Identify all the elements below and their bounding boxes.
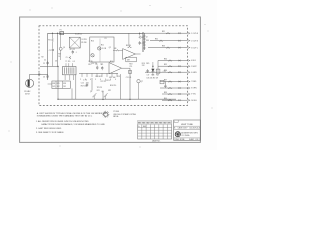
svg-text:5 WHT: 5 WHT [191, 66, 197, 68]
svg-text:C7 35: C7 35 [88, 61, 92, 63]
wire box divider [99, 39, 101, 63]
component box rows78 [160, 80, 164, 84]
svg-text:9: 9 [115, 79, 116, 81]
fuse F1 [60, 32, 64, 35]
svg-text:T1 115: T1 115 [65, 61, 70, 63]
component C5 [69, 56, 71, 59]
wire bottom bus [58, 98, 176, 100]
svg-text:REV: REV [155, 123, 158, 125]
scan speckles [52, 8, 53, 9]
svg-text:Q7: Q7 [141, 81, 143, 83]
svg-text:REV A: REV A [113, 115, 119, 118]
svg-text:R2: R2 [42, 57, 44, 59]
capacitor chain C20 [139, 42, 141, 44]
svg-text:K1: K1 [105, 38, 107, 40]
svg-text:R12: R12 [88, 64, 91, 66]
svg-text:R33: R33 [162, 46, 165, 48]
svg-text:3 OUT C: 3 OUT C [191, 47, 199, 49]
box under U1 [126, 57, 137, 62]
svg-text:R16 220: R16 220 [110, 85, 116, 87]
wire left edge [47, 33, 49, 80]
LED CR5 [151, 69, 154, 72]
svg-text:C11 .01: C11 .01 [126, 77, 132, 79]
svg-text:SC4R 21: SC4R 21 [75, 34, 82, 36]
svg-text:5: 5 [95, 79, 96, 81]
svg-text:C5: C5 [66, 57, 68, 59]
title block box [174, 120, 201, 140]
transistor Q6 [104, 93, 108, 97]
svg-text:R19: R19 [142, 63, 145, 65]
transistor Q3 [91, 54, 94, 57]
svg-text:R1: R1 [48, 40, 50, 42]
svg-text:R15 10K: R15 10K [109, 77, 116, 79]
wire plug to box [30, 73, 48, 75]
svg-text:R28: R28 [152, 75, 155, 77]
output row R40 [162, 99, 188, 101]
svg-text:REV: REV [168, 123, 171, 125]
svg-text:1. ALL RESISTORS IN OHMS 1/4W: 1. ALL RESISTORS IN OHMS 1/4W 5% UNLESS … [36, 120, 89, 123]
transformer T1 [63, 67, 77, 75]
svg-text:C8: C8 [95, 64, 97, 66]
wire opamp down [129, 68, 131, 99]
svg-text:Q5: Q5 [90, 91, 92, 93]
capacitor CL1 on left edge [46, 62, 48, 64]
svg-text:J2: J2 [146, 37, 148, 39]
svg-text:C3: C3 [55, 60, 57, 62]
svg-text:C3: C3 [43, 76, 45, 78]
svg-text:R21: R21 [97, 90, 100, 92]
svg-text:1N4: 1N4 [146, 40, 149, 42]
output row R35 [158, 65, 188, 67]
svg-text:C4 25V: C4 25V [81, 39, 87, 41]
svg-text:R31: R31 [162, 31, 165, 33]
wire join rows 4-6 [157, 61, 159, 73]
svg-text:.1: .1 [75, 52, 76, 54]
terminal box TB1 [52, 81, 70, 88]
svg-text:TP3 2V: TP3 2V [97, 87, 103, 89]
wire mid horizontal [79, 72, 118, 74]
wire R1 [51, 33, 53, 38]
svg-text:1K: 1K [58, 56, 60, 58]
connector J2 column [142, 32, 144, 52]
svg-text:115 VAC: 115 VAC [24, 90, 31, 93]
output row R33 [148, 47, 188, 49]
revision table header [138, 121, 172, 125]
junction dot x139 [139, 33, 140, 34]
svg-text:R24: R24 [53, 83, 56, 85]
svg-text:SHEET 1 OF 2: SHEET 1 OF 2 [189, 139, 200, 141]
module box A1 [90, 37, 114, 62]
svg-text:Q6: Q6 [101, 91, 103, 93]
wire R9 to bus [128, 33, 130, 46]
wire U2 out [122, 67, 130, 69]
svg-text:R25: R25 [57, 83, 60, 85]
svg-text:Q1: Q1 [63, 47, 65, 49]
output row R37 [160, 81, 188, 83]
svg-text:1K5: 1K5 [53, 86, 56, 88]
wire vert x75.8 [75, 75, 77, 99]
wire vert x103 [102, 91, 104, 99]
svg-text:REV: REV [163, 123, 166, 125]
capacitor C1 [52, 49, 54, 51]
svg-text:REV: REV [146, 123, 149, 125]
transistor Q2 [98, 47, 101, 50]
resistor chain R20 [139, 33, 141, 35]
svg-text:R10: R10 [91, 41, 94, 43]
svg-text:C11: C11 [129, 66, 132, 68]
svg-text:R39: R39 [164, 92, 167, 94]
svg-text:REV: REV [138, 123, 141, 125]
wire TB1 down [71, 88, 73, 99]
svg-text:REV: REV [159, 123, 162, 125]
junction dot CR5 [152, 66, 153, 67]
wire opamp out [135, 53, 140, 55]
svg-text:CAPACITORS IN MICROFARADS, VOL: CAPACITORS IN MICROFARADS, VOLTAGES MEAS… [41, 123, 105, 126]
svg-text:R29: R29 [156, 75, 159, 77]
op-amp U2 [109, 63, 122, 74]
svg-text:6: 6 [100, 79, 101, 81]
svg-text:DASH NO.: DASH NO. [152, 139, 161, 142]
svg-text:R8: R8 [114, 48, 116, 50]
wire vert x92 [91, 78, 93, 91]
svg-text:C17: C17 [147, 75, 150, 77]
svg-text:R26: R26 [63, 83, 66, 85]
svg-text:1 OUT A: 1 OUT A [191, 32, 198, 35]
svg-text:Q2: Q2 [109, 47, 111, 49]
transistor Q7 [137, 80, 140, 83]
junction dots [58, 66, 59, 67]
svg-text:6 GRN: 6 GRN [191, 72, 197, 74]
svg-text:22K: 22K [142, 65, 145, 67]
svg-text:4: 4 [90, 79, 91, 81]
svg-text:2K2: 2K2 [63, 86, 66, 88]
svg-text:R37: R37 [164, 80, 167, 82]
wire vert x120 [120, 74, 122, 99]
svg-text:2 OUT B: 2 OUT B [191, 40, 199, 42]
svg-text:R5 330: R5 330 [81, 42, 86, 44]
input resistor R8 [116, 50, 120, 52]
connector J0 on dashed edge [38, 73, 40, 75]
svg-text:CR5: CR5 [146, 63, 149, 65]
pin ticks row [81, 73, 83, 77]
wire TB1 left [48, 83, 52, 85]
capacitor C16 [86, 84, 88, 86]
svg-text:R14: R14 [110, 61, 113, 63]
svg-text:R36: R36 [164, 70, 167, 72]
output row R31 [143, 32, 188, 34]
svg-text:REV: REV [151, 123, 154, 125]
svg-text:R34: R34 [164, 59, 167, 61]
svg-text:DET: DET [127, 60, 130, 62]
wire opamp in [113, 49, 116, 51]
svg-text:.1: .1 [101, 64, 102, 66]
svg-text:2. LAST REF DESIG USED: 2. LAST REF DESIG USED [36, 127, 62, 130]
transistor Q1 [59, 47, 62, 50]
stamp symbol [104, 112, 108, 116]
svg-text:R32: R32 [155, 39, 158, 41]
svg-text:6.3: 6.3 [73, 61, 75, 63]
capacitor C12 [146, 70, 148, 72]
wire top bus [48, 32, 143, 34]
capacitor C4 [72, 51, 74, 53]
svg-text:WHIT TUBE: WHIT TUBE [181, 124, 193, 126]
capacitor C8 [96, 66, 98, 68]
AC plug P1 [26, 79, 34, 87]
resistor R1 [52, 38, 54, 42]
svg-text:7 RED: 7 RED [191, 81, 197, 83]
svg-text:A. UNIT SHOWN IS TYPICAL FOR A: A. UNIT SHOWN IS TYPICAL FOR ALL MODELS … [37, 112, 108, 115]
wire mid-left horizontal [40, 65, 58, 67]
output row R39 [162, 93, 188, 95]
capacitor CL2 on left edge [46, 75, 48, 77]
svg-text:REV: REV [143, 126, 146, 128]
output row R36 [145, 71, 188, 73]
svg-text:R35: R35 [164, 64, 167, 66]
bridge rectifier CR1 [69, 37, 80, 48]
revision table [138, 121, 172, 139]
svg-text:R22: R22 [108, 90, 111, 92]
dashed enclosure box [39, 26, 188, 106]
svg-text:8 ORN: 8 ORN [191, 88, 197, 90]
component on x130 [129, 70, 132, 73]
svg-text:2: 2 [80, 79, 81, 81]
maker logo [175, 132, 180, 137]
wire join rows 7-8 [165, 82, 167, 89]
transformer top pins [65, 63, 67, 66]
component box right of CR5 [156, 69, 160, 73]
svg-text:R13 4K7: R13 4K7 [96, 76, 102, 78]
svg-text:C1: C1 [49, 50, 51, 52]
svg-text:REV: REV [142, 123, 145, 125]
capacitor C9 [101, 67, 103, 69]
output row R32 [150, 40, 188, 42]
svg-text:3: 3 [85, 79, 86, 81]
svg-text:R11: R11 [101, 45, 104, 47]
svg-text:7: 7 [105, 79, 106, 81]
svg-text:60 HZ: 60 HZ [25, 94, 30, 96]
transformer leads [64, 75, 66, 80]
svg-text:3. SEE SHEET 2 FOR CABLE: 3. SEE SHEET 2 FOR CABLE [36, 131, 64, 134]
svg-text:F1: F1 [60, 30, 62, 32]
svg-text:10 BLU: 10 BLU [191, 100, 197, 102]
svg-text:C2: C2 [43, 63, 45, 65]
svg-text:R40: R40 [164, 98, 167, 100]
svg-text:8: 8 [110, 79, 111, 81]
svg-text:9 YEL: 9 YEL [191, 94, 196, 96]
svg-text:R9 1M: R9 1M [126, 45, 131, 47]
wire vertical x58 [57, 66, 59, 99]
svg-text:IS MEASURED USING THE STANDARD: IS MEASURED USING THE STANDARD TEST SET … [37, 115, 93, 118]
feedback resistor R9 [128, 46, 132, 48]
svg-text:C13: C13 [117, 76, 120, 78]
svg-text:10V 220 4K7 1W: 10V 220 4K7 1W [147, 78, 159, 80]
svg-text:R18: R18 [129, 64, 132, 66]
op-amp U1 [123, 49, 136, 60]
wire vertical x57.5 [57, 33, 59, 66]
svg-text:4.2: 4.2 [44, 59, 46, 61]
border frame [20, 17, 201, 142]
svg-text:1K2: 1K2 [57, 86, 60, 88]
svg-text:R3: R3 [58, 54, 60, 56]
transistor Q5 [92, 93, 96, 97]
output row R38 [160, 87, 188, 89]
output row R34 [158, 60, 188, 62]
svg-text:4C1 C2: 4C1 C2 [70, 49, 76, 51]
svg-text:C15: C15 [81, 83, 84, 85]
